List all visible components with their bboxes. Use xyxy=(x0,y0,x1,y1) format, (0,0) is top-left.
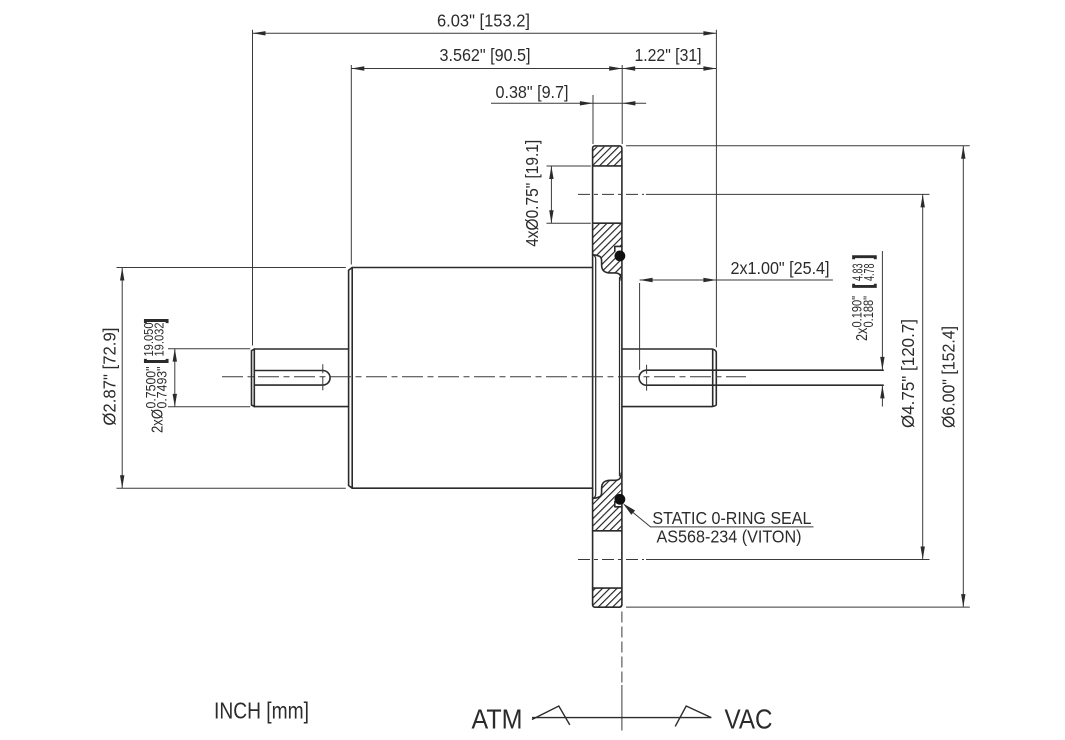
leader line o-ring xyxy=(633,513,813,527)
shaft right S2 chamfer witness xyxy=(712,349,714,406)
shaft S1 outline xyxy=(254,349,348,407)
o-ring seal dot bottom xyxy=(615,494,626,505)
arrowheads 1.22 xyxy=(622,66,635,70)
dim 4x bolt line xyxy=(550,166,552,223)
atm-vac divider line xyxy=(532,717,711,719)
svg-text:INCH [mm]: INCH [mm] xyxy=(214,698,309,724)
flange bore line right xyxy=(619,278,621,476)
bolt hole centerline bottom xyxy=(578,559,644,561)
svg-text:4xØ0.75" [19.1]: 4xØ0.75" [19.1] xyxy=(522,140,542,247)
flange bolt hole bottom edges xyxy=(593,531,622,588)
arrowheads shaft dia 0.75 xyxy=(173,349,177,362)
ext line pin hole edge xyxy=(639,283,641,370)
o-ring seal dot top xyxy=(615,251,626,262)
bolt hole centerline top xyxy=(578,193,644,195)
dim 0.38 line xyxy=(491,102,646,104)
pin rod lines xyxy=(647,370,884,385)
ext line left shaft end xyxy=(252,30,254,346)
shaft left end S1 xyxy=(252,349,255,407)
keyway slot on shaft S1 xyxy=(254,371,330,386)
dim shaft dia 0.75 line xyxy=(174,349,176,407)
dim 2x1.00 line xyxy=(640,279,833,281)
svg-text:0.38" [9.7]: 0.38" [9.7] xyxy=(496,82,569,102)
vac flag xyxy=(675,706,711,726)
shaft right S2 outline xyxy=(622,349,716,407)
label 2x 0.190 tolerance rotated xyxy=(849,257,878,341)
svg-text:6.03" [153.2]: 6.03" [153.2] xyxy=(437,11,530,31)
svg-text:VAC: VAC xyxy=(725,704,773,735)
ext line cylinder left xyxy=(350,65,352,265)
dim 3.562 and 1.22 line xyxy=(351,68,716,70)
hatch flange lower mid xyxy=(593,473,622,531)
hatch flange bottom rim xyxy=(593,588,622,607)
flange step S-curve bottom xyxy=(593,473,622,499)
atm flag xyxy=(532,706,570,725)
svg-text:ATM: ATM xyxy=(472,704,523,735)
flange o-ring notch bottom xyxy=(615,502,622,507)
svg-text:2xØ: 2xØ xyxy=(150,409,167,433)
svg-text:STATIC 0-RING SEAL: STATIC 0-RING SEAL xyxy=(652,508,811,528)
ext line right shaft end xyxy=(715,30,717,348)
pin hole center tick right xyxy=(646,365,648,391)
flange outline xyxy=(593,146,622,607)
flange o-ring notch top xyxy=(615,246,622,251)
ext lines shaft dia xyxy=(168,349,250,407)
dim dia 4.75 line xyxy=(922,194,924,559)
svg-text:Ø4.75" [120.7]: Ø4.75" [120.7] xyxy=(898,319,918,428)
dim 6.03 line xyxy=(253,32,717,34)
dim 2x0.190 line upper xyxy=(881,251,883,370)
svg-text:3.562" [90.5]: 3.562" [90.5] xyxy=(440,45,531,65)
leader arrowhead o-ring xyxy=(623,503,635,515)
svg-text:19.032: 19.032 xyxy=(151,323,166,357)
svg-text:0.188": 0.188" xyxy=(861,296,876,328)
ext line flange right face xyxy=(621,65,623,144)
cylinder body outline xyxy=(352,268,592,489)
svg-text:Ø2.87" [72.9]: Ø2.87" [72.9] xyxy=(99,328,119,426)
dim dia 2.87 line xyxy=(121,268,123,489)
cylinder body chamfer left xyxy=(349,268,353,489)
ext lines bolt hole xyxy=(547,166,591,223)
main centerline xyxy=(222,376,746,378)
svg-text:0.7493": 0.7493" xyxy=(154,366,169,408)
arrowheads 2x1.00 xyxy=(640,278,653,282)
ext line flange left face xyxy=(592,95,594,144)
keyway center tick left xyxy=(322,364,324,390)
arrowheads dia 6.00 xyxy=(961,146,965,159)
flange bore line left with hooks xyxy=(593,255,596,499)
svg-text:1.22" [31]: 1.22" [31] xyxy=(635,45,702,65)
dim dia 6.00 line xyxy=(962,146,964,607)
ext lines dia 6.00 xyxy=(626,146,970,607)
svg-text:AS568-234 (VITON): AS568-234 (VITON) xyxy=(657,527,802,547)
arrowheads 4x bolt xyxy=(549,166,553,179)
ext lines cylinder left dia xyxy=(117,268,346,489)
pin rod slot arc xyxy=(639,370,647,385)
arrowheads 2x0.190 xyxy=(880,357,884,370)
dim 2x0.190 line lower xyxy=(881,385,883,406)
arrowheads dia 2.87 xyxy=(120,268,124,281)
arrowheads 0.38 xyxy=(580,101,593,105)
arrowheads 6.03 xyxy=(253,31,266,35)
vertical centerline below flange xyxy=(621,612,623,684)
flange bolt hole top edges xyxy=(593,166,622,223)
svg-text:4.78: 4.78 xyxy=(862,264,878,282)
label 2x dia 0.7500 tolerance rotated xyxy=(141,321,169,434)
hatch flange top rim xyxy=(593,147,622,166)
flange step S-curve top xyxy=(593,255,622,281)
hatch flange upper mid xyxy=(593,223,622,280)
svg-text:2x1.00" [25.4]: 2x1.00" [25.4] xyxy=(731,258,830,278)
svg-text:2x: 2x xyxy=(854,327,871,341)
svg-text:Ø6.00" [152.4]: Ø6.00" [152.4] xyxy=(938,326,958,428)
arrowheads dia 4.75 xyxy=(921,194,925,207)
arrowheads 3.562 xyxy=(351,66,364,70)
